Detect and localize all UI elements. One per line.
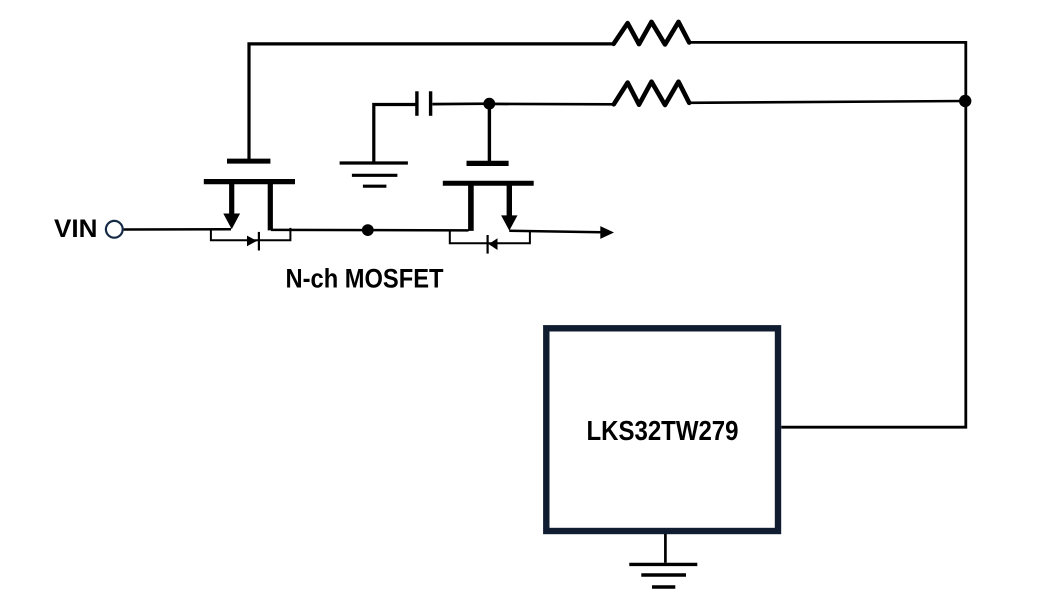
resistor R2 bbox=[614, 82, 689, 105]
wire Q1 to Q2 bbox=[271, 229, 469, 232]
node C (right junction) bbox=[959, 95, 971, 107]
node B (cap junction) bbox=[483, 98, 495, 110]
resistor R1 bbox=[614, 22, 690, 45]
terminal VIN bbox=[106, 221, 123, 238]
ground (middle) bbox=[340, 163, 408, 186]
svg-text:N-ch MOSFET: N-ch MOSFET bbox=[286, 264, 444, 294]
wire Q2 to output arrow bbox=[509, 231, 601, 233]
body diode D1 bbox=[211, 228, 291, 251]
wire R1 to right vertical, down and into U1 bbox=[689, 42, 966, 427]
capacitor C1 bbox=[417, 91, 431, 116]
IC U1 box bbox=[546, 328, 778, 531]
label VIN bbox=[54, 215, 98, 243]
svg-text:LKS32TW279: LKS32TW279 bbox=[587, 415, 739, 446]
wire node B down to Q2 gate bbox=[488, 104, 491, 162]
wire R2 to node C bbox=[689, 101, 965, 103]
wire C1 to node B bbox=[432, 102, 489, 105]
ground (below U1) bbox=[629, 534, 697, 587]
label LKS32TW279 bbox=[587, 415, 739, 446]
output arrowhead bbox=[600, 226, 614, 239]
wire VIN to Q1 source bbox=[124, 228, 231, 231]
wire node B to resistor R2 bbox=[489, 103, 614, 106]
wire capacitor C1 to ground corner bbox=[374, 105, 416, 162]
svg-text:VIN: VIN bbox=[54, 215, 98, 243]
transistor Q2 (right N-ch MOSFET) bbox=[443, 163, 534, 231]
wire Q1 gate to resistor R1 bbox=[249, 44, 614, 160]
body diode D2 bbox=[450, 231, 530, 254]
node A (mid junction) bbox=[362, 224, 374, 236]
transistor Q1 (left N-ch MOSFET) bbox=[204, 161, 295, 230]
label N-ch MOSFET bbox=[286, 264, 444, 294]
